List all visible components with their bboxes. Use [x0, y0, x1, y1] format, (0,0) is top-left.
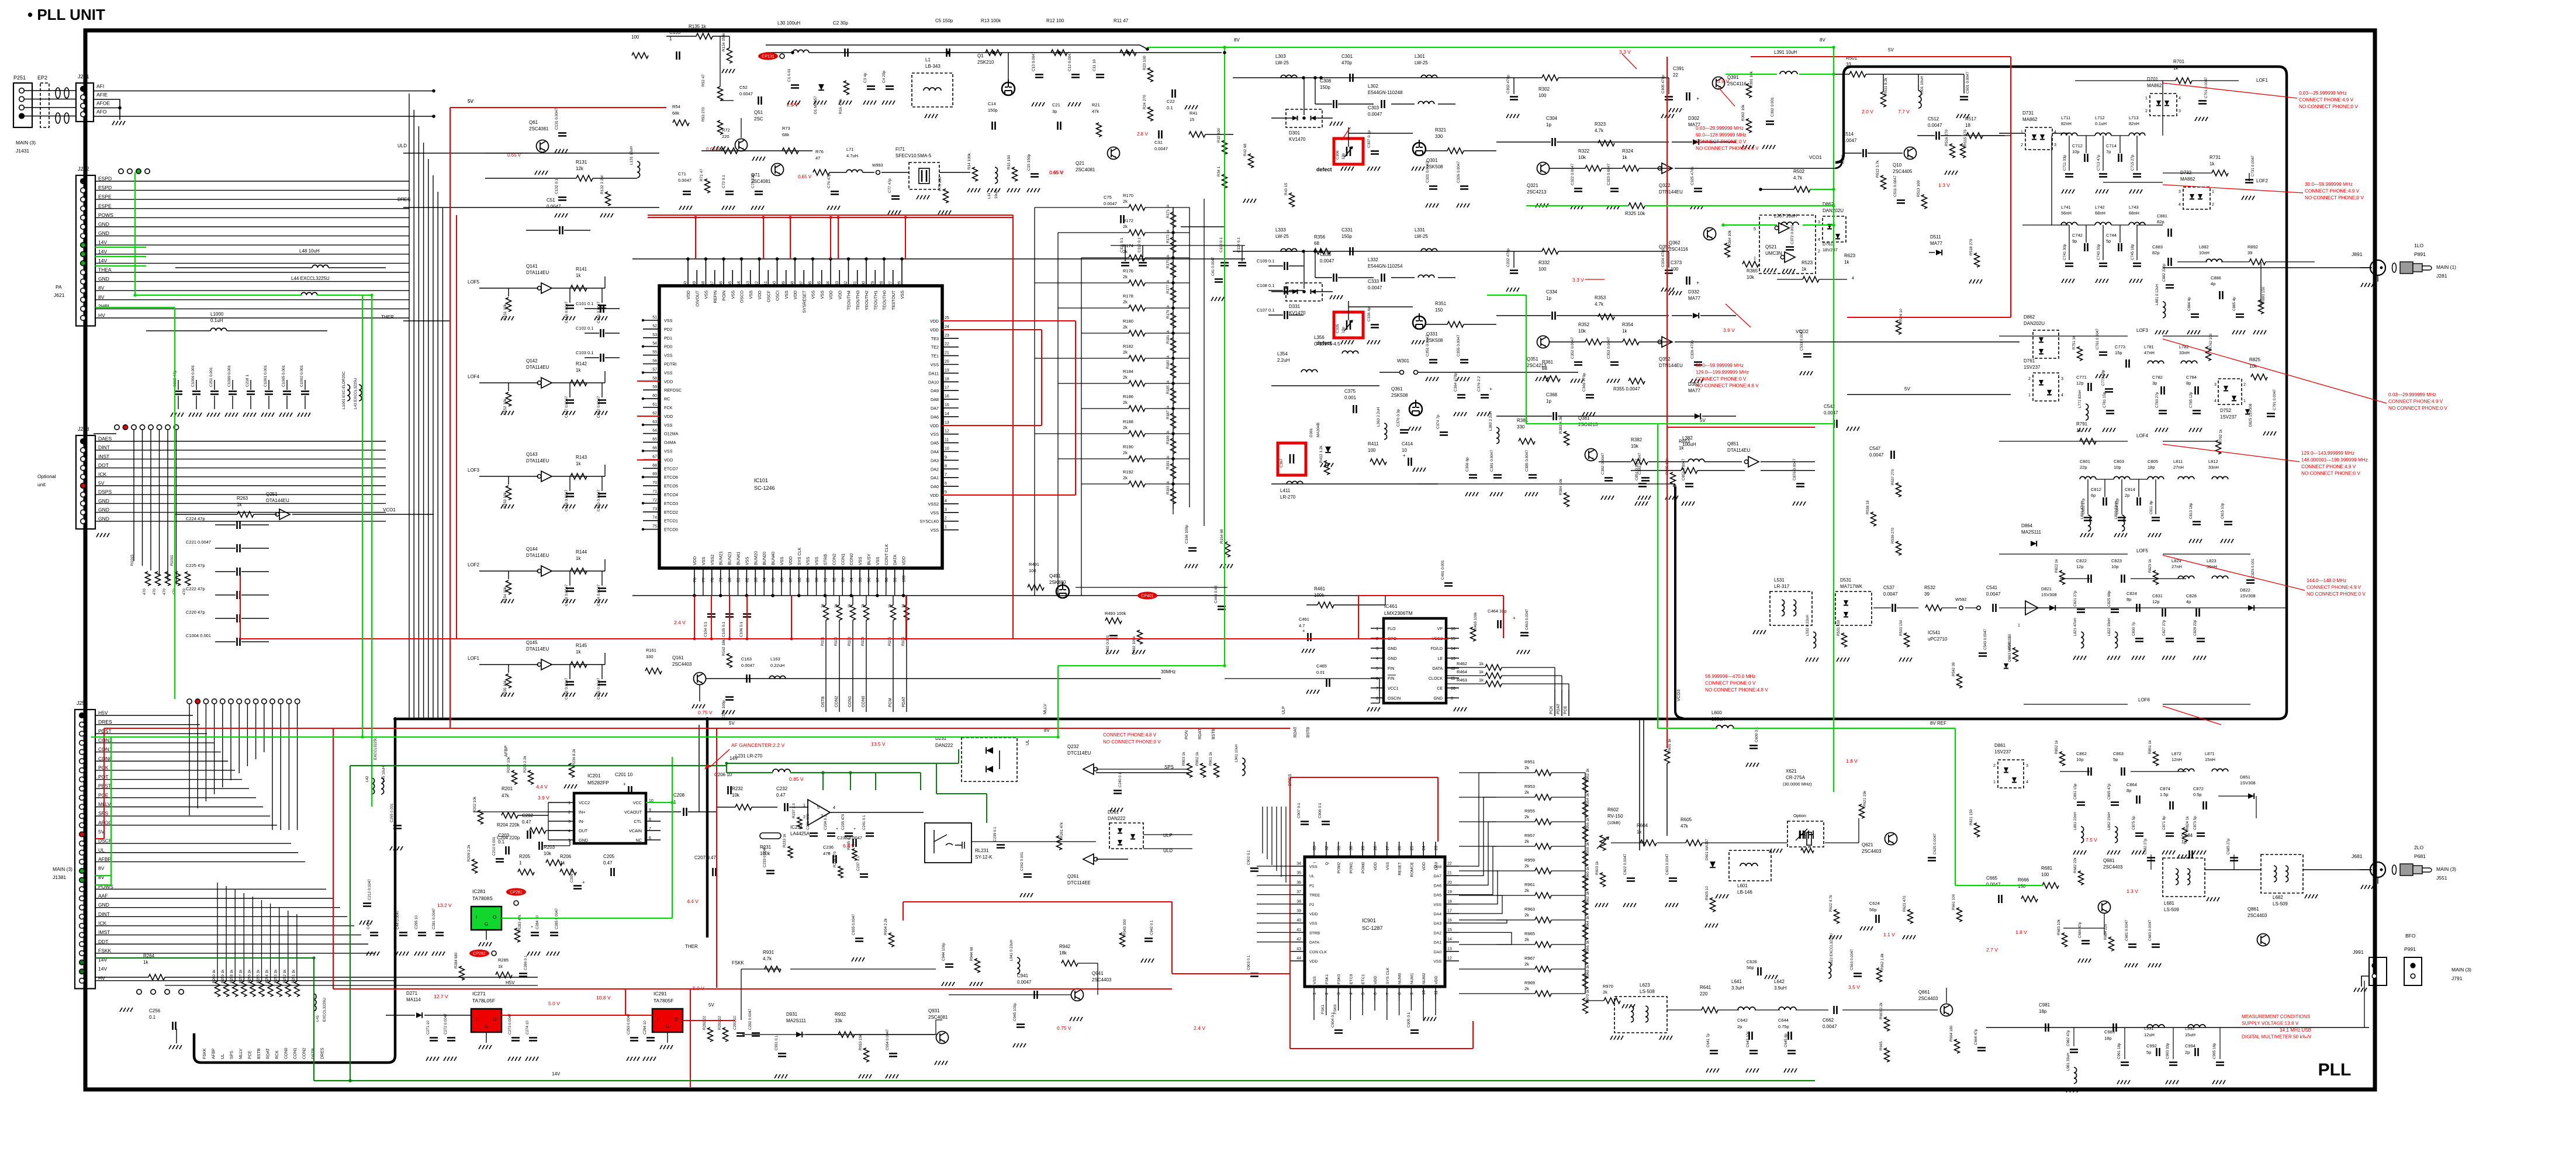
- svg-text:CONNECT PHONE:4.9 V: CONNECT PHONE:4.9 V: [2307, 585, 2361, 590]
- svg-text:1SV237: 1SV237: [2024, 365, 2041, 370]
- inductor L363 2.2uH: [1384, 423, 1387, 440]
- svg-text:R142: R142: [576, 361, 587, 366]
- svg-text:2.4 V: 2.4 V: [1194, 1025, 1205, 1031]
- svg-text:CON2: CON2: [835, 696, 839, 707]
- svg-text:65: 65: [652, 438, 657, 442]
- svg-text:R959: R959: [1524, 857, 1535, 863]
- svg-text:MLLV: MLLV: [1043, 704, 1047, 714]
- svg-text:DSTB: DSTB: [821, 696, 825, 707]
- wires D731: [1999, 133, 2025, 134]
- svg-text:C391: C391: [1673, 66, 1685, 71]
- svg-text:13: 13: [1451, 657, 1455, 661]
- svg-text:VSS2: VSS2: [710, 555, 715, 565]
- capacitor C463 0.0047: [1520, 633, 1529, 636]
- wires P251 to J251: [24, 90, 76, 91]
- svg-text:L303: L303: [1275, 54, 1286, 59]
- svg-text:C682 27p: C682 27p: [2143, 838, 2148, 855]
- svg-text:68k: 68k: [782, 132, 789, 137]
- svg-text:DTA114EU: DTA114EU: [526, 365, 549, 370]
- svg-text:3: 3: [945, 508, 947, 512]
- svg-text:60.0—128.999999 MHz: 60.0—128.999999 MHz: [1696, 133, 1746, 138]
- svg-text:C154 0.0047: C154 0.0047: [597, 584, 601, 606]
- svg-text:R201: R201: [502, 786, 513, 791]
- svg-text:VP: VP: [1437, 627, 1443, 631]
- svg-text:D302: D302: [1688, 116, 1700, 121]
- svg-text:RDAT: RDAT: [1294, 727, 1298, 738]
- capacitor C152 0.0047: [598, 400, 606, 403]
- svg-text:MAIN (3): MAIN (3): [2451, 967, 2471, 973]
- svg-text:CON0: CON0: [98, 756, 112, 762]
- svg-text:C224 47p: C224 47p: [186, 516, 205, 521]
- capacitor C4 20p: [886, 87, 894, 89]
- svg-text:1: 1: [2212, 190, 2214, 194]
- svg-text:BSTB: BSTB: [1306, 727, 1311, 738]
- svg-text:R233 1k: R233 1k: [783, 833, 787, 847]
- svg-text:L331: L331: [1415, 227, 1425, 233]
- svg-text:148.000001—199.999999 MHz: 148.000001—199.999999 MHz: [2301, 458, 2368, 463]
- svg-text:DA10: DA10: [928, 379, 939, 385]
- svg-text:RDAT: RDAT: [267, 1048, 271, 1059]
- svg-text:R134 150k: R134 150k: [722, 33, 726, 51]
- svg-text:1k: 1k: [1479, 661, 1484, 666]
- svg-text:12p: 12p: [2076, 564, 2084, 569]
- svg-text:D271: D271: [406, 991, 418, 996]
- svg-text:R903 1k: R903 1k: [1182, 752, 1186, 766]
- svg-text:94: 94: [850, 577, 854, 582]
- svg-text:2SC4081: 2SC4081: [529, 126, 549, 132]
- svg-text:TEOUTH1: TEOUTH1: [873, 290, 878, 310]
- svg-text:R332: R332: [1538, 260, 1550, 265]
- svg-text:SYS CLK: SYS CLK: [1386, 967, 1390, 984]
- svg-text:DAES: DAES: [98, 436, 112, 442]
- svg-text:R183 1k: R183 1k: [1166, 355, 1170, 369]
- svg-text:J253: J253: [78, 426, 89, 432]
- svg-text:P2: P2: [1309, 903, 1315, 907]
- svg-text:H5V: H5V: [506, 980, 515, 985]
- svg-text:LE: LE: [1437, 657, 1443, 661]
- svg-text:SYSRESET: SYSRESET: [801, 290, 807, 313]
- svg-text:4: 4: [1376, 657, 1378, 661]
- svg-text:2SC4213: 2SC4213: [1578, 422, 1598, 427]
- svg-text:60: 60: [652, 394, 657, 398]
- svg-text:L741: L741: [2061, 205, 2071, 210]
- svg-text:C444 0.68: C444 0.68: [1214, 586, 1218, 603]
- svg-text:R205: R205: [519, 854, 531, 859]
- svg-text:H5V: H5V: [98, 710, 108, 716]
- svg-text:C784: C784: [2186, 375, 2197, 380]
- svg-text:RV-150: RV-150: [1607, 814, 1623, 819]
- svg-text:SC-1287: SC-1287: [1362, 925, 1383, 931]
- svg-text:ETCO7: ETCO7: [664, 466, 678, 471]
- svg-text:18p: 18p: [2104, 1036, 2112, 1041]
- svg-text:10k: 10k: [1578, 328, 1586, 334]
- svg-text:17: 17: [1447, 909, 1452, 914]
- svg-text:C626: C626: [1747, 959, 1757, 964]
- resistor R661 100: [1957, 908, 1962, 922]
- svg-text:O: O: [493, 1017, 496, 1022]
- svg-text:J254: J254: [77, 700, 88, 706]
- wires Q71 row: [701, 150, 812, 151]
- svg-text:R601 1k: R601 1k: [1668, 738, 1672, 753]
- capacitor C12 0.0047: [1071, 75, 1080, 78]
- svg-text:C875 5p: C875 5p: [2132, 816, 2136, 830]
- svg-text:C212 0.0047: C212 0.0047: [368, 878, 372, 900]
- svg-text:VSS: VSS: [875, 556, 880, 565]
- capacitor C491 0.001: [1444, 583, 1453, 586]
- wire ULP/ULD to right: [1143, 834, 1192, 835]
- svg-text:1: 1: [2018, 624, 2020, 628]
- svg-text:10p: 10p: [2072, 149, 2080, 154]
- svg-text:L901 10uH: L901 10uH: [1235, 744, 1239, 762]
- resistor R152 10k: [506, 392, 511, 406]
- bus VCO3 join: [1675, 486, 1683, 718]
- svg-text:DA2: DA2: [931, 466, 939, 472]
- svg-text:25: 25: [945, 316, 949, 320]
- svg-text:2SC4213: 2SC4213: [1527, 189, 1547, 195]
- svg-text:5V: 5V: [468, 99, 473, 104]
- svg-text:VSS: VSS: [784, 290, 789, 299]
- svg-text:C665: C665: [1986, 876, 1998, 881]
- svg-text:2: 2: [2028, 377, 2031, 381]
- svg-text:CONNECT PHONE:0 V: CONNECT PHONE:0 V: [1705, 681, 1756, 686]
- svg-text:PDAT: PDAT: [902, 696, 906, 707]
- svg-text:C882 220p: C882 220p: [2162, 264, 2166, 282]
- svg-text:BUN41: BUN41: [736, 552, 741, 565]
- svg-text:10k: 10k: [1578, 155, 1586, 160]
- connector J253: [76, 435, 95, 529]
- svg-text:G: G: [485, 1024, 488, 1029]
- svg-text:53: 53: [652, 333, 657, 337]
- svg-text:PCE: PCE: [98, 792, 109, 798]
- svg-text:1: 1: [1993, 780, 1996, 784]
- svg-text:4: 4: [2214, 399, 2217, 403]
- svg-text:99: 99: [894, 577, 898, 582]
- capacitor C715 27p: [2133, 174, 2141, 177]
- svg-text:C104 0.1: C104 0.1: [704, 621, 708, 637]
- svg-text:2: 2: [2243, 383, 2246, 387]
- svg-text:R161: R161: [646, 648, 656, 653]
- svg-text:DINT: DINT: [98, 445, 110, 451]
- svg-text:R355 0.0047: R355 0.0047: [1613, 386, 1640, 392]
- svg-text:C805: C805: [2148, 459, 2158, 464]
- svg-text:L48 10uH: L48 10uH: [299, 248, 320, 254]
- svg-text:DA8: DA8: [1434, 865, 1441, 869]
- svg-text:LB-146: LB-146: [1737, 890, 1752, 895]
- svg-text:C102 0.1: C102 0.1: [576, 326, 593, 331]
- resistor R191 1k: [1171, 463, 1176, 479]
- svg-text:0.22uH: 0.22uH: [770, 663, 784, 668]
- svg-text:1: 1: [1376, 627, 1378, 631]
- svg-text:22p: 22p: [2080, 465, 2087, 470]
- svg-text:12: 12: [1447, 957, 1452, 961]
- capacitor C944 100p: [945, 964, 953, 967]
- svg-text:2k: 2k: [1123, 249, 1128, 254]
- svg-text:+: +: [853, 827, 856, 831]
- wire Q931 base: [935, 1020, 936, 1035]
- svg-text:Q521: Q521: [1765, 244, 1777, 250]
- svg-text:54: 54: [652, 342, 657, 346]
- svg-text:C256: C256: [149, 1008, 161, 1013]
- capacitor C241 0.1: [866, 833, 874, 836]
- svg-text:Q381: Q381: [1578, 416, 1590, 421]
- svg-text:D861: D861: [1994, 743, 2006, 748]
- diode block D752 1SV237: [2218, 379, 2242, 404]
- svg-text:C14: C14: [988, 101, 996, 106]
- svg-text:3p: 3p: [1052, 109, 1057, 114]
- svg-text:GND: GND: [98, 902, 109, 908]
- resistor R43 15: [1289, 193, 1295, 207]
- svg-text:VDD: VDD: [793, 290, 798, 299]
- svg-text:REFOSC: REFOSC: [664, 388, 682, 393]
- svg-text:C1002 0.001: C1002 0.001: [300, 365, 304, 387]
- svg-text:R934 2.2k: R934 2.2k: [884, 918, 888, 935]
- svg-text:R204 220k: R204 220k: [497, 822, 520, 828]
- transistor Q10 2SC4405: [1904, 147, 1917, 160]
- svg-text:7.7 V: 7.7 V: [1898, 109, 1910, 115]
- svg-text:4: 4: [1349, 992, 1353, 995]
- svg-text:C461: C461: [1299, 617, 1309, 622]
- svg-text:L941 0.22uH: L941 0.22uH: [1009, 939, 1014, 961]
- varicap C306 defect marker: [1334, 139, 1363, 164]
- svg-text:2SC4081: 2SC4081: [1076, 167, 1095, 172]
- svg-text:0.0047: 0.0047: [1368, 112, 1382, 117]
- svg-text:1k: 1k: [1622, 328, 1627, 334]
- svg-text:C881: C881: [2157, 213, 2167, 219]
- green wire L367: [1723, 224, 1777, 226]
- resistor R412 1.2k: [1325, 461, 1330, 475]
- wire to IC101: [604, 559, 606, 571]
- svg-text:TE2: TE2: [931, 345, 939, 350]
- svg-text:DRES: DRES: [98, 719, 112, 725]
- svg-text:R251 1k: R251 1k: [292, 969, 296, 983]
- svg-text:C995 18p: C995 18p: [2212, 1043, 2217, 1059]
- svg-text:C366 6p: C366 6p: [1465, 457, 1469, 472]
- connector J252: [76, 175, 95, 326]
- svg-text:R72: R72: [722, 127, 730, 133]
- resistor R682 22k: [2079, 871, 2084, 885]
- svg-text:M5282FP: M5282FP: [587, 780, 609, 786]
- svg-text:R191 1k: R191 1k: [1166, 455, 1170, 469]
- resistor R853 1k part: [1681, 468, 1697, 473]
- svg-text:unit: unit: [37, 482, 46, 487]
- svg-text:16: 16: [1447, 919, 1452, 923]
- svg-text:CLOCK: CLOCK: [1429, 677, 1443, 681]
- svg-text:R302: R302: [1538, 87, 1550, 92]
- svg-text:C353 0.0047: C353 0.0047: [1607, 337, 1611, 359]
- svg-text:PA: PA: [56, 284, 62, 290]
- svg-text:NUM1: NUM1: [1410, 973, 1414, 984]
- svg-text:86: 86: [780, 577, 784, 582]
- svg-text:Q10: Q10: [1893, 162, 1902, 168]
- transistor Q331 2SK508: [1413, 316, 1426, 329]
- svg-text:59: 59: [652, 385, 657, 389]
- green wire L391: [1726, 74, 1777, 75]
- svg-text:C385 0.0047: C385 0.0047: [1525, 449, 1529, 472]
- svg-text:POM2: POM2: [1337, 862, 1341, 873]
- svg-text:26: 26: [898, 281, 902, 286]
- wire LOF out to J681: [2205, 869, 2261, 870]
- svg-text:L354: L354: [1277, 351, 1288, 357]
- capacitor C942 0.1: [1144, 939, 1153, 942]
- svg-text:24: 24: [1422, 846, 1426, 850]
- svg-text:2: 2: [568, 811, 570, 815]
- svg-text:C992: C992: [2146, 1043, 2157, 1049]
- svg-text:BUN20: BUN20: [762, 552, 767, 565]
- svg-text:GND: GND: [1388, 647, 1397, 651]
- inductor L821 47nH: [2081, 632, 2084, 648]
- svg-text:LR-270: LR-270: [1280, 494, 1296, 500]
- svg-text:L712: L712: [2095, 115, 2105, 120]
- svg-text:R823 1k: R823 1k: [2148, 559, 2152, 573]
- svg-text:R13 100k: R13 100k: [981, 18, 1001, 23]
- svg-text:VSS: VSS: [664, 449, 673, 454]
- svg-text:1k: 1k: [1622, 155, 1627, 160]
- svg-text:MA77: MA77: [1688, 296, 1700, 301]
- svg-text:1SV308: 1SV308: [2240, 780, 2256, 786]
- svg-text:VDD: VDD: [930, 319, 939, 324]
- svg-text:L1: L1: [925, 57, 931, 63]
- wire J681 row verticals: [2150, 855, 2152, 870]
- svg-text:4: 4: [945, 499, 947, 503]
- svg-text:ETCO1: ETCO1: [664, 518, 678, 524]
- svg-text:1: 1: [2145, 96, 2148, 101]
- capacitor C935 0.0047: [855, 939, 863, 942]
- svg-text:J891: J891: [2352, 251, 2363, 257]
- svg-text:D261: D261: [1108, 809, 1119, 815]
- wire Q661 out: [1946, 988, 1947, 1003]
- svg-text:NO CONNECT PHONE:0 V: NO CONNECT PHONE:0 V: [1103, 739, 1161, 745]
- resistor R14 100k: [973, 167, 978, 181]
- resistor R134 150k: [727, 48, 732, 63]
- svg-text:CON CLK: CON CLK: [1309, 950, 1327, 954]
- resistor R364 10k: [1725, 243, 1730, 257]
- svg-text:R188: R188: [1123, 419, 1133, 424]
- svg-text:SYSCLK0: SYSCLK0: [920, 519, 939, 524]
- svg-text:L713: L713: [2129, 115, 2139, 120]
- svg-text:R538 18: R538 18: [1866, 500, 1870, 514]
- svg-text:D761: D761: [2024, 358, 2035, 364]
- svg-text:71: 71: [652, 490, 657, 494]
- svg-text:C236: C236: [823, 845, 834, 850]
- red rail 5V y1246: [104, 728, 1290, 729]
- svg-text:3.3 V: 3.3 V: [1572, 277, 1584, 283]
- resistor R209 2.2k: [472, 859, 478, 873]
- svg-text:C511 0.0047: C511 0.0047: [1893, 175, 1897, 197]
- svg-text:CON2: CON2: [303, 1047, 307, 1059]
- svg-text:L30 100uH: L30 100uH: [777, 20, 800, 26]
- svg-text:Q851: Q851: [1727, 441, 1739, 447]
- svg-text:0.0047: 0.0047: [1883, 591, 1898, 597]
- svg-text:C202: C202: [522, 813, 534, 818]
- resistor R933 15k: [864, 1048, 869, 1062]
- svg-text:CP281: CP281: [510, 891, 523, 895]
- svg-text:O4MA: O4MA: [664, 440, 676, 445]
- svg-text:27nH: 27nH: [2172, 564, 2182, 569]
- svg-text:R237 3.3: R237 3.3: [792, 803, 796, 818]
- svg-text:CON1: CON1: [840, 553, 845, 565]
- svg-text:44: 44: [1296, 957, 1301, 961]
- svg-text:D931: D931: [786, 1012, 798, 1017]
- svg-text:2SC4116: 2SC4116: [1669, 247, 1688, 252]
- svg-text:0.47: 0.47: [522, 819, 531, 825]
- svg-text:1: 1: [1313, 992, 1317, 995]
- svg-text:Q51: Q51: [754, 110, 763, 115]
- svg-text:C133: C133: [669, 30, 681, 35]
- resistor R943 330: [1120, 933, 1125, 947]
- svg-text:L711: L711: [2061, 115, 2070, 120]
- svg-text:129.0—143.999999 MHz: 129.0—143.999999 MHz: [2301, 451, 2354, 456]
- svg-text:13.2 V: 13.2 V: [437, 902, 452, 908]
- svg-text:C1005 0.001: C1005 0.001: [282, 365, 286, 387]
- svg-text:C274 10: C274 10: [525, 1020, 530, 1035]
- svg-text:C165 100p: C165 100p: [722, 700, 726, 719]
- svg-text:C11 10: C11 10: [1092, 59, 1097, 71]
- svg-text:R154 10k: R154 10k: [503, 586, 507, 603]
- junction W592: [1959, 606, 1963, 610]
- svg-text:81: 81: [737, 577, 741, 582]
- resistor R603 1k: [1600, 873, 1606, 887]
- svg-text:L861 22nH: L861 22nH: [2073, 812, 2077, 830]
- svg-text:0.0047: 0.0047: [1823, 1024, 1837, 1029]
- svg-text:63: 63: [652, 420, 657, 424]
- svg-text:3: 3: [2054, 143, 2056, 147]
- svg-text:D1 MA357: D1 MA357: [814, 96, 818, 114]
- resistors R903 R902 R901 1k: [1187, 763, 1192, 777]
- svg-text:CONNECT PHONE:4.8 V: CONNECT PHONE:4.8 V: [1103, 732, 1157, 738]
- svg-text:R364 10k: R364 10k: [1728, 230, 1732, 247]
- svg-text:R73: R73: [782, 126, 790, 131]
- svg-text:2k: 2k: [1123, 299, 1128, 305]
- svg-text:LOF6: LOF6: [2138, 697, 2150, 703]
- resistor R132 2.2M: [606, 192, 611, 206]
- svg-text:C745 18p: C745 18p: [2131, 244, 2135, 260]
- svg-text:R515 470: R515 470: [1963, 129, 1968, 146]
- svg-text:C305 470p: C305 470p: [1661, 75, 1665, 94]
- svg-text:C370 0.3p: C370 0.3p: [1396, 409, 1401, 427]
- svg-text:GND: GND: [1388, 657, 1397, 661]
- svg-text:90: 90: [815, 577, 820, 582]
- svg-text:DA0: DA0: [1434, 950, 1441, 954]
- svg-text:C541: C541: [1986, 585, 1998, 590]
- svg-text:1k: 1k: [560, 860, 565, 866]
- capacitor C11 10: [1096, 75, 1104, 78]
- svg-text:J621: J621: [54, 292, 65, 298]
- capacitor C234 0.1: [827, 833, 835, 836]
- capacitor C15 150p: [1031, 174, 1039, 177]
- svg-text:W993: W993: [872, 164, 883, 168]
- capacitor C871 9p: [2166, 833, 2174, 836]
- svg-text:VCO1: VCO1: [383, 507, 396, 513]
- svg-text:4: 4: [833, 806, 835, 810]
- capacitor C492 0.001: [1109, 636, 1118, 639]
- capacitor C686 47p: [2081, 941, 2090, 944]
- svg-text:VCAIN: VCAIN: [629, 828, 642, 833]
- capacitor C355 0.0047: [1460, 360, 1468, 363]
- svg-text:LOF1: LOF1: [468, 656, 480, 661]
- svg-text:4: 4: [568, 829, 570, 833]
- svg-text:DTN144EU: DTN144EU: [1659, 363, 1683, 368]
- resistor R162 18k: [727, 653, 732, 667]
- inductor L532 0.22uH: [1813, 632, 1816, 648]
- svg-text:43: 43: [1296, 947, 1301, 951]
- svg-text:8V: 8V: [98, 866, 105, 871]
- svg-text:18: 18: [945, 377, 949, 381]
- svg-text:G: G: [666, 1024, 669, 1029]
- svg-text:L43 EXCCL3225U: L43 EXCCL3225U: [354, 378, 358, 409]
- svg-text:R461: R461: [1314, 586, 1326, 591]
- svg-text:30MHz: 30MHz: [1161, 669, 1175, 674]
- svg-text:C885 4p: C885 4p: [2232, 297, 2236, 311]
